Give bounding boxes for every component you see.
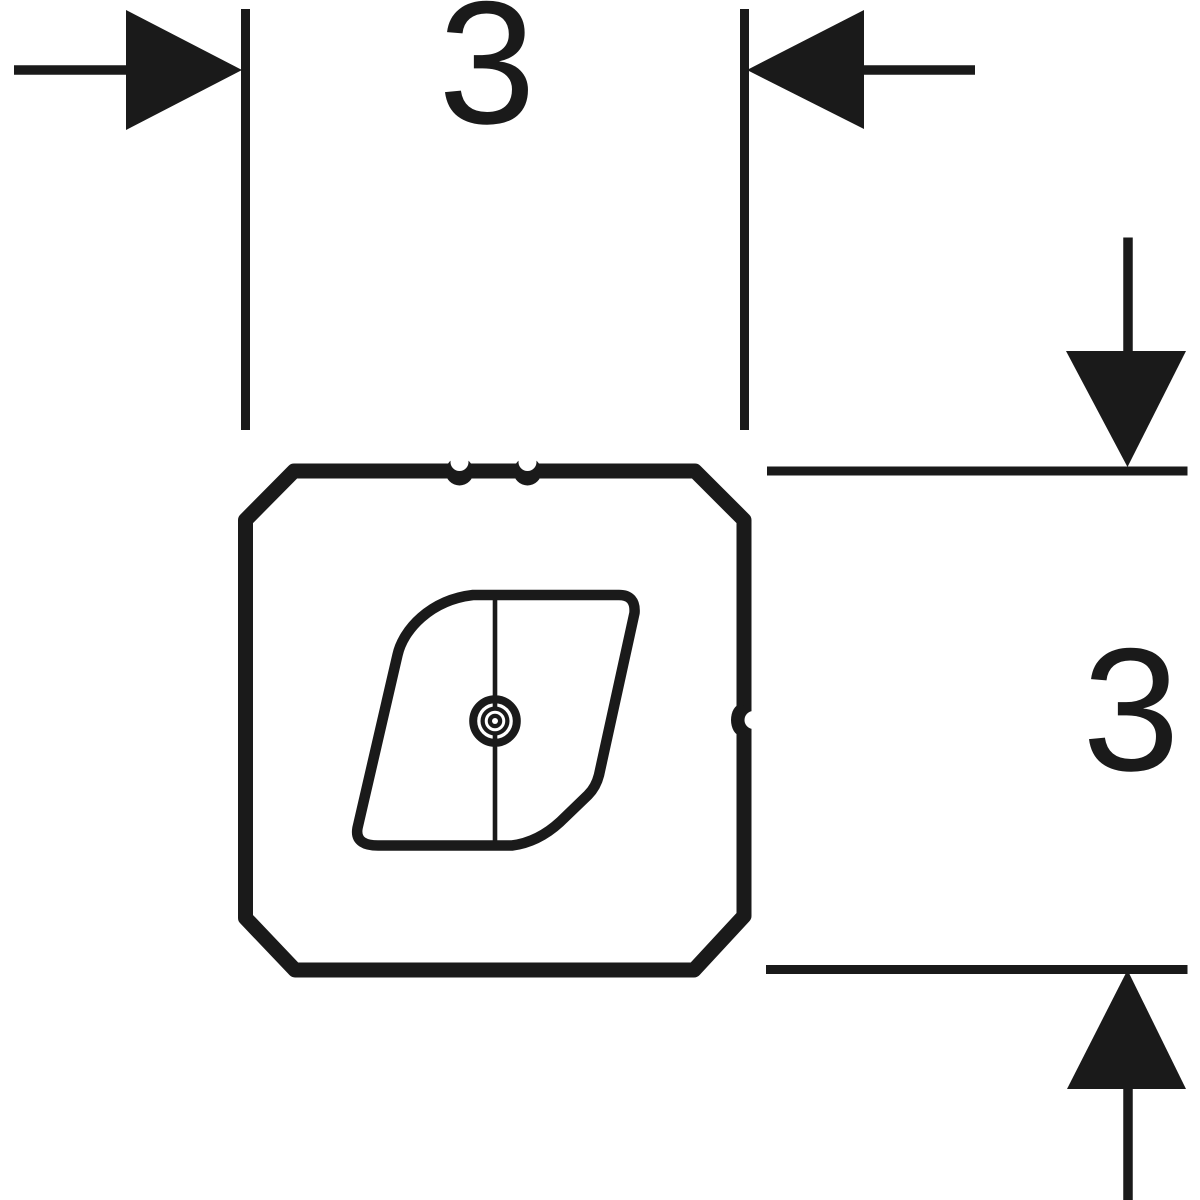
left arrow tail (horizontal) xyxy=(14,65,128,75)
screw: white ring xyxy=(486,712,504,730)
left arrowhead pointing right xyxy=(126,10,242,130)
top edge clip bump 1 xyxy=(446,458,474,486)
top edge notch 2 (white) xyxy=(519,453,537,471)
extension line top-right (horizontal, y=470.5) xyxy=(767,467,1188,476)
screw: outer ring xyxy=(473,699,517,743)
up arrow tail (vertical) xyxy=(1123,1087,1133,1200)
outer box (chamfered square) xyxy=(246,471,745,970)
down arrow tail (vertical) xyxy=(1123,238,1133,356)
screw: white center dot xyxy=(492,718,498,724)
right edge notch (white) xyxy=(745,711,763,729)
extension line left (vertical, x=245.5) xyxy=(241,9,250,430)
right arrowhead pointing left xyxy=(747,10,864,129)
svg-text:3: 3 xyxy=(1082,613,1179,808)
right edge clip bump xyxy=(731,705,750,736)
down arrowhead xyxy=(1066,351,1186,467)
right arrow tail (horizontal) xyxy=(862,65,975,75)
screw: middle disc xyxy=(481,707,510,736)
extension line bottom-right (horizontal, y=967.5) xyxy=(766,965,1188,974)
top edge clip bump 2 xyxy=(514,458,542,486)
up arrowhead xyxy=(1067,970,1186,1089)
svg-text:3: 3 xyxy=(438,0,535,161)
inner cam plate xyxy=(357,595,634,846)
extension line right (vertical, x=744.5) xyxy=(740,9,749,430)
top edge notch 1 (white) xyxy=(451,453,469,471)
center axis line (thin vertical) xyxy=(493,600,498,841)
